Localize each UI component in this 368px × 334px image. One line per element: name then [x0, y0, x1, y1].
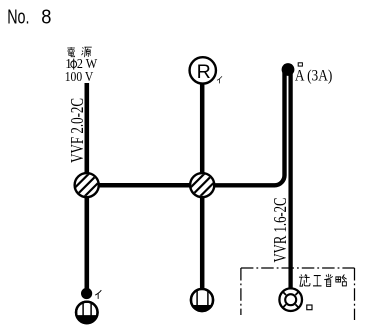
- automatic switch dot A(3A): [282, 63, 295, 76]
- wire: lamp R drop to J2: [200, 84, 205, 185]
- label イ (R): [217, 76, 222, 83]
- svg-text:No.: No.: [7, 6, 29, 29]
- ceiling fitting (left): [74, 300, 100, 325]
- wire: horizontal J1 to J2: [87, 183, 202, 188]
- ceiling fitting (middle): [189, 287, 215, 313]
- outdoor light (in omitted box): [279, 288, 302, 311]
- wire: power feed vertical: [85, 83, 90, 185]
- junction box J2 (hatched circle): [189, 162, 216, 207]
- svg-text:8: 8: [41, 6, 51, 29]
- label 電源 (power source): [67, 47, 75, 57]
- label ロ (A switch): [298, 63, 302, 66]
- wire: A switch down to outdoor light: [288, 70, 292, 289]
- label 施工省略: [299, 274, 310, 286]
- wire: junction J1 down to switch: [85, 185, 90, 291]
- switch dot イ: [81, 288, 92, 299]
- svg-text:100 V: 100 V: [65, 69, 94, 84]
- svg-text:R: R: [197, 62, 211, 83]
- wire: J2 right with bend up to A switch: [202, 70, 284, 186]
- wire: J2 down to ceiling fitting: [200, 185, 205, 288]
- junction box J1 (hatched circle): [73, 162, 100, 207]
- dashed box 施工省略 (work omitted): [241, 268, 355, 320]
- svg-text:VVF 2.0-2C: VVF 2.0-2C: [67, 98, 87, 163]
- label イ (switch): [95, 290, 101, 299]
- svg-text:A (3A): A (3A): [295, 67, 332, 84]
- lamp receptacle R: [190, 57, 216, 83]
- label ロ (outdoor light): [307, 305, 312, 310]
- svg-text:VVR 1.6-2C: VVR 1.6-2C: [270, 198, 290, 263]
